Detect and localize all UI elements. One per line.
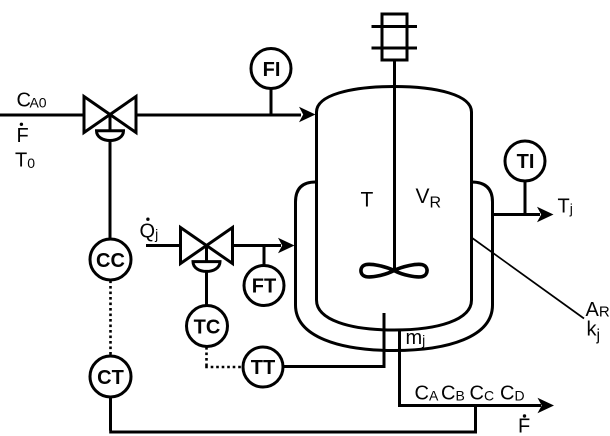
- wire Qj line: [146, 244, 281, 247]
- wire FT tap: [263, 246, 266, 267]
- wire valve V1 stem to CC: [109, 115, 112, 239]
- svg-text:T: T: [361, 189, 374, 212]
- stirrer shaft: [393, 60, 396, 270]
- wire dotted TC to TT: [205, 347, 242, 367]
- wire FI tap: [270, 88, 273, 115]
- wire valve V2 stem to TC: [205, 246, 208, 307]
- stirrer motor body: [382, 14, 407, 60]
- wire CT sample line: [109, 398, 477, 434]
- Qj arrow into jacket: [278, 238, 295, 254]
- svg-text:TT: TT: [251, 357, 275, 379]
- svg-text:F: F: [518, 416, 530, 436]
- wire mj jacket outlet: [398, 329, 401, 404]
- svg-text:FI: FI: [263, 59, 281, 81]
- svg-text:CC: CC: [96, 250, 125, 272]
- svg-text:VR: VR: [416, 185, 442, 212]
- svg-text:TI: TI: [517, 151, 535, 173]
- svg-text:FT: FT: [252, 276, 276, 298]
- wire dotted CC to CT: [109, 281, 112, 356]
- svg-text:F: F: [17, 125, 29, 147]
- instrument CC: [90, 239, 131, 280]
- instrument TC: [187, 306, 228, 347]
- instrument FI: [251, 49, 291, 89]
- Tj arrow: [537, 207, 554, 223]
- feed arrow into vessel: [299, 107, 316, 123]
- svg-text:TC: TC: [194, 317, 221, 339]
- cooling jacket: [296, 182, 493, 351]
- svg-text:Qj: Qj: [140, 221, 159, 243]
- reactor vessel: [317, 87, 472, 331]
- svg-text:Tj: Tj: [558, 196, 573, 218]
- svg-text:CACBCCCD: CACBCCCD: [415, 383, 525, 405]
- wire feed line: [0, 114, 301, 117]
- wire TT to reactor tap: [284, 365, 386, 368]
- valve V2: [181, 228, 233, 272]
- svg-text:T0: T0: [15, 150, 35, 172]
- wire product line: [398, 404, 541, 407]
- instrument TI: [505, 141, 545, 181]
- svg-text:mj: mj: [406, 327, 426, 349]
- svg-text:CT: CT: [97, 367, 124, 389]
- node pointer line to AR kj: [472, 238, 585, 319]
- instrument TT: [243, 347, 283, 387]
- instrument FT: [244, 266, 284, 306]
- wire Tj outlet line: [494, 213, 540, 216]
- stirrer motor flange lines: [372, 27, 418, 49]
- stirrer impeller: [361, 264, 427, 277]
- wire reactor bottom temperature tap: [383, 313, 386, 365]
- instrument CT: [90, 356, 131, 397]
- valve V1: [84, 97, 136, 141]
- wire TI tap: [524, 181, 527, 215]
- svg-text:CA0: CA0: [17, 90, 47, 112]
- product arrow: [538, 398, 555, 414]
- svg-text:kj: kj: [587, 319, 601, 344]
